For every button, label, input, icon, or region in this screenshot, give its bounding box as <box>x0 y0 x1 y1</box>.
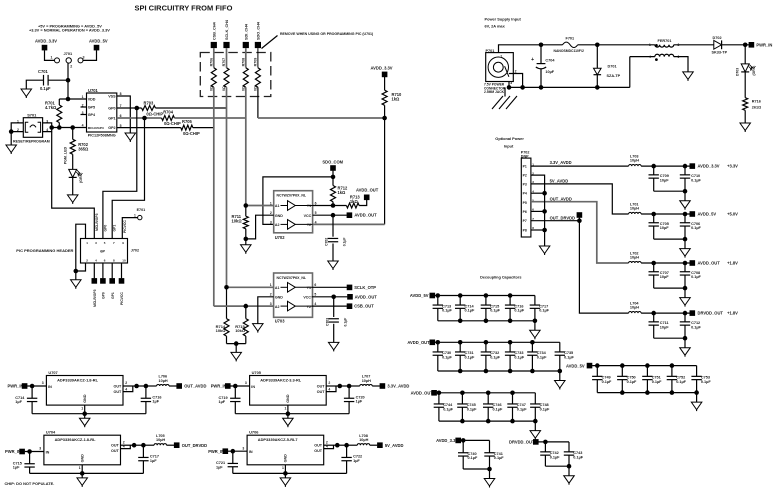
wire jack pin1 to top rail <box>499 45 542 53</box>
svg-text:10µF: 10µF <box>660 325 669 329</box>
wire U703 GND pin2 to ground <box>258 297 274 324</box>
wire ground stub AVDD_OUT row <box>534 421 536 431</box>
node C745 bottom <box>460 419 465 424</box>
svg-text:1µF: 1µF <box>150 459 157 463</box>
wire bottom rail AVDD_OUT row <box>439 420 535 422</box>
wire choke pin2 to D702 <box>674 44 714 46</box>
svg-text:SDO_COM: SDO_COM <box>322 159 343 164</box>
wire R704 to SDI_CH4 bus <box>174 117 245 119</box>
svg-text:6P: 6P <box>100 248 105 253</box>
ground at L702 branch <box>680 298 691 306</box>
svg-text:3: 3 <box>270 220 272 224</box>
svg-text:AVDD_5V: AVDD_5V <box>410 293 429 298</box>
wire SDI bus down to U702 A1 <box>245 87 247 205</box>
svg-text:0Ω-CHIP: 0Ω-CHIP <box>183 131 200 136</box>
capacitor C741 0.1uF <box>489 440 491 452</box>
svg-text:RESET/REPROGRAM: RESET/REPROGRAM <box>13 139 50 143</box>
svg-text:10: 10 <box>122 259 126 263</box>
wire L703 to output node <box>641 165 690 167</box>
svg-text:AVDD_3.3V: AVDD_3.3V <box>371 65 393 70</box>
node C715 bottom <box>484 319 489 324</box>
pin stub GP5 <box>81 106 87 108</box>
svg-text:SCLK_CH4: SCLK_CH4 <box>225 19 229 40</box>
node input cap C721 <box>231 449 236 454</box>
svg-text:IN: IN <box>251 385 255 389</box>
svg-text:J702: J702 <box>131 249 139 253</box>
svg-text:1: 1 <box>282 466 284 470</box>
terminal SCLK_OTP <box>347 285 353 291</box>
svg-text:VDD: VDD <box>88 97 96 101</box>
wire U706 OUT pin2 <box>324 444 338 446</box>
svg-text:OUT: OUT <box>314 444 323 448</box>
wire U705 OUT pin2 <box>326 385 340 387</box>
wire LED to R716 <box>744 72 746 98</box>
wire bottom rail L702 branch <box>654 287 685 289</box>
node C734 top <box>530 340 535 345</box>
node C713 top <box>436 293 441 298</box>
node SDO / R710 <box>382 116 387 121</box>
wire S701 left pins common <box>11 123 23 132</box>
svg-text:PGM_LED: PGM_LED <box>63 147 67 165</box>
wire U703 Y1 to SCLK_OTP <box>312 286 347 288</box>
wire PWR_IN to U706 IN <box>228 450 247 452</box>
terminal on OUT_DRVDD <box>577 212 583 218</box>
svg-text:C704: C704 <box>545 59 555 63</box>
terminal OUT_DRVDD <box>174 442 180 448</box>
node C734 bottom <box>530 369 535 374</box>
terminal GP1 bottom <box>111 263 113 278</box>
svg-text:0.1µF: 0.1µF <box>443 407 453 411</box>
terminal MCLR/GP3 bottom <box>93 263 95 278</box>
svg-text:DRVDD_OUT: DRVDD_OUT <box>509 440 535 445</box>
svg-text:A1: A1 <box>275 204 280 208</box>
svg-text:Y1: Y1 <box>307 286 311 290</box>
wire U702 Y1 to R712/R713 node <box>313 205 347 207</box>
node D701 top <box>595 43 600 48</box>
wire R706 bus top stub <box>213 48 215 68</box>
svg-text:AVDD_OUT: AVDD_OUT <box>698 261 721 266</box>
svg-text:10µF: 10µF <box>660 275 669 279</box>
svg-text:0.1µF: 0.1µF <box>490 355 500 359</box>
svg-text:1µF: 1µF <box>353 459 360 463</box>
node C715 top <box>484 293 489 298</box>
terminal AVDD_5V <box>690 211 696 217</box>
node U706 output <box>335 443 340 448</box>
wire U704 GND pin1 <box>81 465 83 474</box>
ground at U703 GND <box>253 324 263 332</box>
svg-text:1: 1 <box>51 56 53 60</box>
svg-text:ADP3339AKCZ-3.3-RL: ADP3339AKCZ-3.3-RL <box>260 377 301 382</box>
svg-text:0Ω-CHIP: 0Ω-CHIP <box>146 112 163 117</box>
wire top rail AVDD_OUT row <box>435 341 560 343</box>
wire bottom rail up to choke pin4 <box>629 57 631 88</box>
node A1/R711 <box>244 203 249 208</box>
ground at CR701 <box>67 195 78 203</box>
svg-text:Decoupling Capacitors: Decoupling Capacitors <box>480 276 521 280</box>
svg-text:3: 3 <box>245 381 247 385</box>
svg-text:365Ω: 365Ω <box>78 147 89 152</box>
svg-text:0.1µF: 0.1µF <box>540 407 550 411</box>
resistor R704 0-ohm on GP1 <box>117 117 162 119</box>
node C710 top <box>683 164 688 169</box>
wire D702 to PWR_IN <box>722 44 749 46</box>
svg-text:Y2: Y2 <box>307 223 311 227</box>
wire R713 to AVDD_OUT flag <box>359 200 367 206</box>
svg-text:PWR_IN: PWR_IN <box>756 42 772 47</box>
svg-text:0Ω-CHIP: 0Ω-CHIP <box>164 121 181 126</box>
node U707 ground <box>82 411 87 416</box>
wire R707 bus top stub <box>226 48 228 68</box>
wire VSS pin8 to ground <box>117 96 131 133</box>
wire SDO_COM to junction <box>332 171 334 177</box>
wire bottom rail AVDD_5V row <box>438 320 535 322</box>
svg-text:AVDD_5V: AVDD_5V <box>89 39 108 44</box>
wire R714/R715 common to ground <box>226 336 228 344</box>
svg-text:OUT_DRVDD: OUT_DRVDD <box>182 443 207 448</box>
capacitor C749 0.1uF <box>596 366 598 377</box>
wire SCLK to U703 A1 <box>227 286 274 288</box>
wire R710 to SDO node <box>384 105 386 118</box>
node U707 output <box>134 384 139 389</box>
node C709 top <box>651 164 656 169</box>
capacitor C746 0.1uF <box>487 393 489 404</box>
resistor R705 0-ohm on GP2 <box>117 127 181 129</box>
wire S701 right pins common <box>43 123 52 132</box>
node C714 top <box>458 293 463 298</box>
svg-text:P5: P5 <box>523 201 527 205</box>
svg-text:E701: E701 <box>137 208 146 212</box>
wire VCC to C702 <box>332 215 334 237</box>
svg-text:10µH: 10µH <box>359 438 368 442</box>
svg-text:IN: IN <box>249 450 253 454</box>
resistor R710 1k pull-up <box>384 77 386 90</box>
wire ground rail U706 <box>233 472 347 474</box>
terminal PWR_IN <box>749 42 755 48</box>
svg-text:OUT: OUT <box>111 449 120 453</box>
svg-text:Y2: Y2 <box>307 305 311 309</box>
wire R705 to CSB_CH4 bus <box>193 127 214 129</box>
node SCLK/R714 <box>224 285 229 290</box>
wire P4 to ground bus <box>531 192 545 194</box>
svg-text:U707: U707 <box>48 370 57 375</box>
svg-text:2: 2 <box>328 381 330 385</box>
svg-text:P6: P6 <box>523 210 527 214</box>
capacitor C734 0.1uF <box>531 342 533 352</box>
svg-text:2: 2 <box>125 381 127 385</box>
capacitor C711 10uF <box>653 313 655 322</box>
svg-text:F701: F701 <box>566 36 575 40</box>
svg-text:GP1: GP1 <box>108 116 115 120</box>
svg-text:R709: R709 <box>254 58 258 67</box>
wire bottom rail L703 branch <box>654 190 685 192</box>
svg-text:AVDD_3.3V: AVDD_3.3V <box>698 164 720 169</box>
wire ground rail U707 <box>32 413 146 415</box>
svg-text:0.1µF: 0.1µF <box>701 380 711 384</box>
capacitor C708 0.1uF <box>684 263 686 272</box>
svg-text:10kΩ: 10kΩ <box>232 218 243 223</box>
wire from AVDD_5V to J701 pin 3 <box>83 50 97 60</box>
node C732 top <box>484 340 489 345</box>
wire VDD node to PIC VDD pin 1 and to R701 top <box>59 98 86 100</box>
wire CSB to U703 A2 <box>214 305 274 307</box>
node C750 bottom <box>620 390 625 395</box>
wire L704 to output node <box>641 312 690 314</box>
svg-text:0Ω: 0Ω <box>209 86 213 91</box>
svg-text:261Ω: 261Ω <box>752 106 761 110</box>
wire GP0 net to header pin 5 <box>103 108 137 239</box>
svg-text:6V, 2A max: 6V, 2A max <box>485 24 506 29</box>
svg-text:GP2: GP2 <box>108 126 115 130</box>
wire U707 OUT pin2 <box>123 385 137 387</box>
node C750 top <box>620 363 625 368</box>
node input cap C714 <box>30 384 35 389</box>
svg-text:10µH: 10µH <box>156 438 165 442</box>
svg-text:0.1µF: 0.1µF <box>691 275 701 279</box>
node U704 ground <box>80 471 85 476</box>
node C749 top <box>595 363 600 368</box>
svg-text:3: 3 <box>42 381 44 385</box>
svg-text:3: 3 <box>510 81 512 85</box>
ground at AVDD_OUT row <box>530 431 541 439</box>
wire bottom rail DRVDD_OUT row <box>545 465 569 467</box>
svg-text:J701: J701 <box>64 51 73 56</box>
node header ground <box>74 269 79 274</box>
svg-text:0.1µF: 0.1µF <box>514 355 524 359</box>
wire R702 to LED CR701 <box>72 154 74 169</box>
wire CR701 to ground <box>72 177 74 195</box>
svg-text:AVDD_3.3V: AVDD_3.3V <box>35 39 57 44</box>
wire bottom rail L704 branch <box>654 337 685 339</box>
node C752 bottom <box>670 390 675 395</box>
wire jack pin2 <box>505 66 509 77</box>
svg-text:U706: U706 <box>249 430 259 435</box>
svg-text:0.1µF: 0.1µF <box>343 318 347 327</box>
wire ground stub AVDD_5V row <box>696 393 698 403</box>
wire PWR_IN node to LED D703 <box>744 45 746 64</box>
svg-text:P7: P7 <box>523 219 527 223</box>
ground at AVDD_5V row <box>691 402 702 410</box>
svg-text:1kΩ: 1kΩ <box>392 96 401 101</box>
svg-text:OUT: OUT <box>317 384 326 388</box>
svg-text:4.7kΩ: 4.7kΩ <box>45 105 57 110</box>
svg-text:0.1µF: 0.1µF <box>465 355 475 359</box>
node C746 top <box>486 391 491 396</box>
svg-text:ADP3339AKCZ-5-RL7: ADP3339AKCZ-5-RL7 <box>258 437 298 442</box>
wire top rail AVDD_OUT row <box>437 392 536 394</box>
node C716 bottom <box>508 319 513 324</box>
svg-text:0.1µF: 0.1µF <box>514 309 524 313</box>
node C753 bottom <box>694 390 699 395</box>
capacitor C709 10uF <box>653 166 655 175</box>
capacitor C733 0.1uF <box>509 342 511 352</box>
svg-text:R708: R708 <box>241 58 245 67</box>
capacitor C750 0.1uF <box>621 366 623 377</box>
ground at U705 <box>283 418 294 426</box>
svg-text:D703: D703 <box>736 68 740 76</box>
capacitor C716 0.1uF <box>509 296 511 306</box>
svg-text:1µF: 1µF <box>216 465 223 469</box>
capacitor C731 0.1uF <box>459 342 461 352</box>
svg-text:0.1µF: 0.1µF <box>537 355 547 359</box>
svg-text:1µF: 1µF <box>15 400 22 404</box>
resistor R703 0-ohm on GP0 <box>117 107 142 109</box>
svg-text:10µH: 10µH <box>362 379 371 383</box>
svg-text:0.1µF: 0.1µF <box>691 178 701 182</box>
svg-text:5V_AVDD: 5V_AVDD <box>550 178 569 183</box>
LED CR701 green <box>69 169 77 177</box>
ground at C701 <box>21 89 32 97</box>
node U704 output <box>132 443 137 448</box>
node C745 top <box>460 391 465 396</box>
wire bottom rail L701 branch <box>654 238 685 240</box>
svg-text:1: 1 <box>81 407 83 411</box>
svg-text:1: 1 <box>79 466 81 470</box>
wire C703 to ground <box>333 324 335 343</box>
svg-text:IN: IN <box>48 385 52 389</box>
wire U703 VCC to C703 <box>333 297 335 317</box>
svg-text:U704: U704 <box>46 430 56 435</box>
capacitor C735 0.1uF <box>559 342 561 352</box>
capacitor C747 0.1uF <box>512 393 514 404</box>
node C704 top <box>539 43 544 48</box>
wire bottom rail AVDD_OUT row <box>438 370 560 372</box>
svg-text:0.1µF: 0.1µF <box>442 355 452 359</box>
svg-text:VCC: VCC <box>303 296 311 300</box>
node C733 bottom <box>508 369 513 374</box>
wire jack pin3 <box>508 82 510 88</box>
svg-text:P4: P4 <box>523 192 527 196</box>
capacitor C717 0.1uF <box>534 296 536 306</box>
node C744 top <box>437 391 442 396</box>
capacitor C730 0.1uF <box>437 342 439 352</box>
svg-text:AVDD_5V: AVDD_5V <box>566 363 585 368</box>
wire L701 to output node <box>641 213 690 215</box>
svg-text:1kΩ: 1kΩ <box>338 190 347 195</box>
svg-text:0Ω: 0Ω <box>241 86 245 91</box>
svg-text:PICVCC: PICVCC <box>120 292 124 305</box>
svg-text:PWR_IN: PWR_IN <box>8 384 24 389</box>
svg-text:GND: GND <box>275 214 283 218</box>
node U705 output <box>338 384 343 389</box>
ground at L701 branch <box>680 249 691 257</box>
node C751 top <box>645 363 650 368</box>
svg-text:U705: U705 <box>252 370 262 375</box>
wire PWR_IN to U704 IN <box>25 451 44 453</box>
resistor R702 365 ohm for LED <box>70 125 75 130</box>
svg-text:0.1µF: 0.1µF <box>539 309 549 313</box>
node SDO_COM loop <box>331 175 336 180</box>
wire C701 right plate to VDD node <box>48 79 68 81</box>
svg-text:+3.3V: +3.3V <box>727 164 738 169</box>
ground at U706 <box>280 478 291 486</box>
svg-text:(GRN): (GRN) <box>752 66 756 76</box>
svg-text:PIC PROGRAMMING HEADER: PIC PROGRAMMING HEADER <box>16 248 73 253</box>
svg-text:+3.3V = NORMAL OPERATION = AVD: +3.3V = NORMAL OPERATION = AVDD_3.3V <box>29 28 110 33</box>
wire R716 to ground <box>744 110 746 123</box>
wire U703 VCC pin5 <box>312 296 348 298</box>
svg-text:A2: A2 <box>275 223 280 227</box>
wire U706 OUT pin4 join <box>324 445 334 448</box>
wire R703 to SCLK_CH4 bus <box>155 107 226 109</box>
ground at P702 <box>539 246 550 254</box>
capacitor C743 0.1uF <box>568 442 570 452</box>
svg-text:0.1µF: 0.1µF <box>517 407 527 411</box>
capacitor C752 0.1uF <box>671 366 673 377</box>
node R701 bottom on MCLR <box>57 125 62 130</box>
svg-text:0.1µF: 0.1µF <box>550 455 560 459</box>
svg-text:OUT: OUT <box>317 390 326 394</box>
svg-text:GP0: GP0 <box>102 292 106 299</box>
svg-text:OUT_AVDD: OUT_AVDD <box>184 384 206 389</box>
svg-text:P8: P8 <box>523 228 527 232</box>
svg-text:FER701: FER701 <box>658 39 672 43</box>
svg-text:AVDD_OUT: AVDD_OUT <box>411 391 434 396</box>
wire ground rail U704 <box>30 472 144 474</box>
capacitor C745 0.1uF <box>461 393 463 404</box>
terminal OUT_AVDD <box>176 383 182 389</box>
svg-text:0.1µF: 0.1µF <box>40 86 51 91</box>
node C746 bottom <box>486 419 491 424</box>
svg-text:0.1µF: 0.1µF <box>467 407 477 411</box>
ground at choke <box>683 72 694 80</box>
ground at R716 <box>740 123 751 131</box>
svg-text:MCLR/GP3: MCLR/GP3 <box>95 213 99 231</box>
wire ground rail U705 <box>235 413 349 415</box>
svg-text:SDO_CH4: SDO_CH4 <box>257 21 261 40</box>
node CSB/R715 <box>244 304 249 309</box>
svg-text:SZA-TP: SZA-TP <box>607 74 621 78</box>
svg-text:4: 4 <box>315 220 317 224</box>
wire GP1 net to header pin 7 <box>112 118 144 239</box>
svg-text:4: 4 <box>82 124 84 128</box>
terminal GP0 bottom <box>102 263 104 278</box>
svg-text:10µH: 10µH <box>630 159 639 163</box>
svg-text:MCLR/GP3: MCLR/GP3 <box>88 126 104 130</box>
wire top rail to fuse F701 <box>541 44 563 46</box>
capacitor C732 0.1uF <box>485 342 487 352</box>
wire PWR_IN to U707 IN <box>27 385 46 387</box>
ground at DRVDD_OUT row <box>564 476 575 484</box>
terminal 3.3V_AVDD <box>380 383 386 389</box>
svg-text:4: 4 <box>649 55 651 59</box>
svg-text:SPI CIRCUITRY FROM FIFO: SPI CIRCUITRY FROM FIFO <box>135 3 233 12</box>
ground at U704 <box>77 478 88 486</box>
wire ground stub AVDD_5V row <box>534 321 536 331</box>
wire PICVCC net to header pin 9 <box>122 218 137 239</box>
node VCC U702 <box>331 213 336 218</box>
wire U704 OUT pin4 join <box>121 445 131 448</box>
svg-text:10µH: 10µH <box>630 306 639 310</box>
svg-text:3: 3 <box>678 55 680 59</box>
ground at C703 <box>328 342 339 350</box>
wire even pins ground bus <box>531 175 545 246</box>
svg-text:0.1µF: 0.1µF <box>442 309 452 313</box>
svg-text:OUT_DRVDD: OUT_DRVDD <box>550 215 575 220</box>
ground at AVDD_3.3V row <box>484 479 495 487</box>
svg-text:CSB_CH4: CSB_CH4 <box>212 21 216 40</box>
svg-text:GP0: GP0 <box>103 225 107 232</box>
node C735 bottom <box>558 369 563 374</box>
wire MCLR net to header pin 3 <box>52 132 95 239</box>
terminal AVDD_3.3V <box>690 163 696 169</box>
svg-text:PWR_IN: PWR_IN <box>5 449 21 454</box>
svg-text:2: 2 <box>270 211 272 215</box>
node C706 top <box>683 212 688 217</box>
power flag AVDD_OUT at U703 VCC <box>347 294 353 300</box>
capacitor C707 10uF <box>653 263 655 272</box>
node PWR_IN <box>743 43 748 48</box>
wire U702 GND pin2 to ground <box>246 215 274 239</box>
